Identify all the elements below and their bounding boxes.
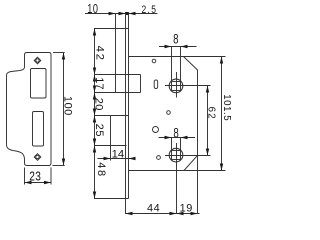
case right edge extension down [197, 156, 199, 215]
dim 8 top ext left [171, 47, 173, 82]
arrows dim23 [25, 181, 32, 184]
dim 101.5 line [221, 57, 223, 171]
hole near bottom hub [157, 156, 161, 160]
svg-text:23: 23 [29, 169, 41, 183]
left chain dim line [94, 29, 96, 199]
faceplate bottom edge + ext to chain [94, 198, 129, 200]
svg-text:10: 10 [87, 3, 98, 17]
dim 8 top ext right [180, 47, 182, 82]
dim 62 line [207, 86, 209, 156]
dim 23 extension right [50, 168, 52, 185]
dim 8 bottom ext left [171, 138, 173, 151]
top hub centerline horizontal [165, 85, 211, 87]
svg-text:8: 8 [173, 32, 179, 47]
svg-text:25: 25 [93, 124, 105, 138]
bottom dim line 44/19 [126, 213, 200, 215]
arrows bottom 44/19 [126, 212, 133, 215]
hole lower [153, 127, 159, 133]
faceplate back edge / case left [128, 12, 130, 199]
arrows dim62 [206, 86, 209, 93]
faceplate top edge + ext to chain [94, 28, 129, 30]
dim 23 extension left [24, 168, 26, 185]
svg-text:14: 14 [112, 148, 125, 160]
deadbolt top edge + ext to chain [94, 115, 128, 117]
case bottom edge extension right [184, 170, 226, 172]
strike screw hole top circle [36, 59, 39, 62]
svg-text:100: 100 [62, 96, 74, 116]
strike plate outline [7, 53, 52, 166]
strike screw hole bottom diamond [34, 154, 41, 161]
svg-text:2.5: 2.5 [142, 4, 158, 16]
svg-text:48: 48 [95, 162, 107, 177]
lock case outline [129, 57, 198, 171]
dim 10 / 2.5 line [85, 13, 158, 15]
svg-text:62: 62 [206, 107, 217, 120]
svg-text:44: 44 [147, 202, 160, 214]
latch bolt top edge + ext to chain [94, 74, 141, 76]
strike screw hole bottom circle [36, 155, 39, 158]
strike latch cutout [31, 69, 47, 99]
dim 100 line [63, 53, 65, 166]
arrows dim100 [62, 53, 65, 60]
bottom hub circle [169, 148, 183, 162]
ext for 44 below plate [125, 199, 127, 215]
top hub circle [169, 79, 183, 93]
arrows dim14 [104, 157, 111, 160]
bottom hub centerline vertical + ext to bottom dim [176, 143, 178, 214]
faceplate front edge [125, 12, 127, 199]
svg-text:101.5: 101.5 [221, 94, 232, 121]
svg-text:42: 42 [93, 46, 105, 62]
hole mid small [167, 111, 171, 115]
arrow dim2.5 left at faceplate back [129, 12, 136, 15]
dim 100 extension top [53, 52, 65, 54]
arrow dim10 right at faceplate front [119, 12, 126, 15]
arrow dim10 right at latch front [109, 12, 116, 15]
dim 100 extension bottom [53, 165, 65, 167]
svg-text:19: 19 [180, 203, 193, 215]
arrows dim101.5 [220, 57, 223, 64]
case top edge extension right [184, 56, 226, 58]
dim 23 line [25, 182, 52, 184]
svg-text:8: 8 [173, 126, 179, 141]
deadbolt bottom edge + ext to chain [94, 145, 127, 147]
latch bolt front face + ext up to dim 10 [115, 14, 117, 93]
arrows dim8 bottom [165, 136, 172, 139]
arrows dim8 top [165, 45, 172, 48]
deadbolt front face + ext for dim 14 [110, 116, 112, 161]
dim 8 bottom ext right [180, 138, 182, 151]
hole top small [152, 59, 156, 63]
latch bolt tail edge [140, 75, 142, 93]
strike screw hole top diamond [34, 57, 41, 64]
arrowheads [25, 12, 224, 215]
strike deadbolt cutout [33, 112, 44, 147]
chain arrows [93, 29, 96, 36]
svg-text:17: 17 [93, 77, 105, 89]
top hub square [172, 82, 181, 91]
top hub centerline vertical [176, 72, 178, 98]
bottom hub square [172, 151, 181, 160]
dim 8 bottom line [159, 137, 196, 139]
dim 8 top line [159, 46, 197, 48]
svg-text:20: 20 [93, 98, 105, 111]
junction dot [125, 12, 128, 15]
bottom hub centerline horizontal [165, 155, 211, 157]
latch bolt bottom edge + ext to chain [94, 92, 141, 94]
dimension texts [29, 3, 232, 215]
dim 14 line [98, 158, 136, 160]
slot hole [154, 80, 158, 89]
